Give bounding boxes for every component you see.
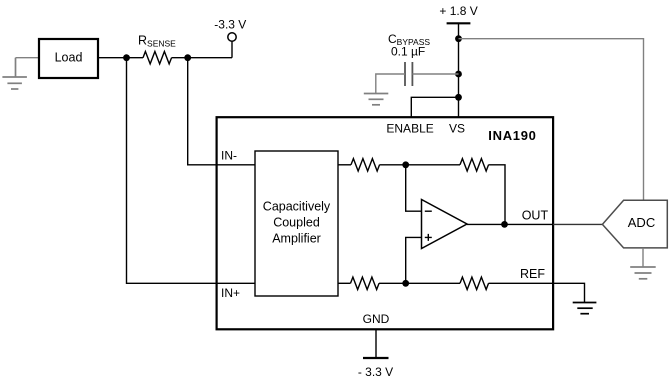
svg-text:Coupled: Coupled — [273, 216, 320, 230]
wire amp top output — [339, 164, 352, 166]
INA190 block — [217, 117, 553, 329]
wire J6 to op-amp minus input — [406, 165, 422, 211]
svg-text:Load: Load — [55, 51, 83, 65]
resistor R3 (bottom input) — [351, 277, 380, 289]
wire ADC to ground — [642, 248, 644, 267]
svg-text:ENABLE: ENABLE — [386, 121, 433, 135]
resistor R2 (feedback) — [460, 159, 489, 171]
op-amp U1 — [422, 200, 468, 249]
svg-text:IN-: IN- — [221, 148, 237, 162]
ground GND3 (ADC ground) — [630, 267, 656, 279]
node junction J3 — [455, 35, 462, 42]
ground GND1 (load ground) — [2, 58, 27, 89]
wire R2 to output node — [489, 165, 506, 225]
node junction J4 — [455, 71, 462, 78]
wire J1 down to IN+ — [127, 58, 256, 284]
GND pin stub to -3.3V — [375, 330, 377, 359]
resistor R1 (top input) — [351, 159, 380, 171]
wire R1 to R2 — [380, 164, 461, 166]
wire capacitor left to ground — [376, 74, 405, 93]
supply +1.8V bar — [447, 22, 471, 24]
svg-text:+ 1.8 V: + 1.8 V — [439, 4, 477, 18]
wire REF to ground — [489, 283, 585, 302]
svg-text:INA190: INA190 — [488, 128, 536, 143]
svg-text:Amplifier: Amplifier — [272, 232, 321, 246]
svg-text:ADC: ADC — [628, 215, 655, 230]
wire VS vertical — [458, 23, 460, 116]
node junction J5 — [455, 94, 462, 101]
wire Rsense to -3.3V terminal — [172, 57, 233, 59]
ground GND4 (REF ground) — [573, 303, 597, 314]
capacitively coupled amplifier block — [255, 151, 338, 296]
node junction J6 — [402, 161, 409, 168]
wire supply to ADC (top run) — [459, 39, 644, 201]
svg-text:VS: VS — [449, 121, 465, 135]
node junction J7 — [501, 221, 508, 228]
svg-text:Capacitively: Capacitively — [263, 200, 331, 214]
wire op-amp output to OUT pin — [467, 223, 553, 225]
supply -3.3V bar — [363, 357, 389, 359]
svg-text:-3.3 V: -3.3 V — [214, 18, 246, 32]
node junction J2 — [184, 54, 191, 61]
resistor RSENSE — [143, 52, 172, 64]
wire load to Rsense — [98, 57, 143, 59]
svg-text:OUT: OUT — [522, 208, 549, 222]
wire ENABLE branch — [411, 97, 458, 116]
wire R3 to R4 — [379, 282, 460, 284]
node junction J8 — [402, 280, 409, 287]
resistor R4 (REF) — [460, 277, 489, 289]
wire J8 to op-amp plus input — [406, 237, 422, 283]
wire load to ground — [16, 57, 39, 59]
svg-text:- 3.3 V: - 3.3 V — [358, 365, 393, 379]
capacitor CBYPASS plates — [404, 62, 406, 86]
wire capacitor right to VS — [412, 73, 458, 75]
ADC block — [602, 200, 667, 248]
svg-text:GND: GND — [363, 312, 390, 326]
wire OUT to ADC — [553, 223, 602, 225]
node junction J1 — [123, 54, 130, 61]
ground GND2 (bypass ground) — [364, 94, 389, 105]
wire amp bottom output — [339, 282, 351, 284]
svg-text:REF: REF — [520, 267, 545, 281]
load block — [39, 39, 98, 78]
wire J2 down to IN- — [188, 58, 255, 165]
svg-text:IN+: IN+ — [221, 286, 240, 300]
svg-text:0.1 µF: 0.1 µF — [391, 45, 425, 59]
terminal -3.3V (open circle) — [231, 41, 233, 57]
